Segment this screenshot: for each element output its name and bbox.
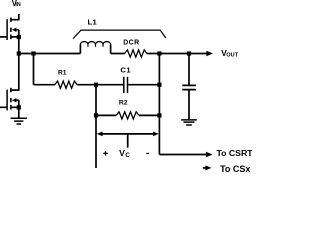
svg-text:To CSRT: To CSRT — [217, 148, 253, 158]
svg-text:C: C — [125, 152, 130, 159]
svg-text:IN: IN — [15, 2, 20, 8]
svg-text:To CSx: To CSx — [220, 164, 250, 173]
svg-text:R1: R1 — [58, 70, 67, 77]
svg-text:L1: L1 — [88, 17, 98, 26]
svg-text:R2: R2 — [119, 100, 128, 107]
svg-text:V: V — [119, 148, 125, 158]
svg-text:OUT: OUT — [226, 52, 238, 58]
svg-text:C1: C1 — [120, 65, 131, 74]
svg-text:DCR: DCR — [123, 40, 139, 47]
